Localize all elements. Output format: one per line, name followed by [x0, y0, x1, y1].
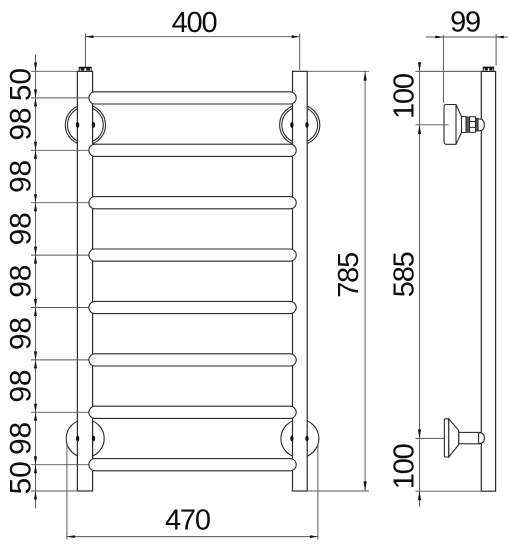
- top-left mounting bracket circle (double): [65, 105, 105, 145]
- top-right mounting bracket circle (double): [280, 105, 320, 145]
- bottom bracket stem rounded cap: [479, 433, 485, 444]
- rung 6: [89, 354, 296, 366]
- rung 4: [89, 249, 296, 261]
- top bracket dome tip: [478, 119, 484, 131]
- svg-text:50: 50: [4, 461, 37, 494]
- svg-text:98: 98: [4, 108, 37, 141]
- svg-text:99: 99: [450, 7, 480, 39]
- dimension 400 top: [85, 34, 299, 70]
- bottom bracket cone: [449, 419, 459, 457]
- top wall bracket (side view): flange: [444, 105, 462, 145]
- rung 2: [89, 144, 296, 156]
- svg-text:50: 50: [4, 68, 37, 101]
- svg-text:98: 98: [4, 422, 37, 455]
- dimension 785: [307, 71, 369, 491]
- bottom-left mounting bracket circle: [66, 420, 104, 458]
- bottom-right mounting bracket circle: [281, 420, 319, 458]
- rung 5: [89, 301, 296, 313]
- bottom bracket stem: [459, 432, 480, 443]
- top bracket dark ring 1: [466, 117, 470, 132]
- svg-text:98: 98: [4, 212, 37, 245]
- rung 3: [89, 197, 296, 209]
- svg-text:98: 98: [4, 265, 37, 298]
- top bracket dark ring 2: [476, 118, 479, 131]
- left vertical post: [77, 71, 92, 491]
- svg-text:98: 98: [4, 317, 37, 350]
- svg-text:98: 98: [4, 160, 37, 193]
- air vent cap on side tube: [483, 67, 494, 71]
- top bracket nut: [470, 117, 476, 133]
- left chain dimension line: [31, 55, 89, 509]
- rung 8: [89, 459, 296, 471]
- air vent cap on left post: [79, 67, 91, 71]
- svg-text:585: 585: [389, 252, 421, 297]
- svg-text:400: 400: [172, 7, 217, 39]
- dimension 99 top right: [426, 34, 508, 103]
- svg-text:470: 470: [165, 505, 210, 537]
- svg-text:785: 785: [333, 253, 365, 298]
- svg-text:100: 100: [389, 74, 421, 119]
- bracket hub dots front view: [76, 122, 309, 441]
- right vertical post: [293, 71, 308, 491]
- svg-text:98: 98: [4, 370, 37, 403]
- rung 1: [89, 92, 296, 104]
- chain arrows: [34, 63, 37, 500]
- side view dimension line 100/585/100: [416, 62, 482, 507]
- bottom wall bracket (side view): wall plate: [444, 419, 448, 457]
- svg-text:100: 100: [388, 444, 420, 489]
- top bracket collar: [462, 117, 467, 133]
- side view vertical tube: [481, 71, 495, 491]
- rung 7: [89, 406, 296, 418]
- dimension 470 bottom: [67, 445, 318, 540]
